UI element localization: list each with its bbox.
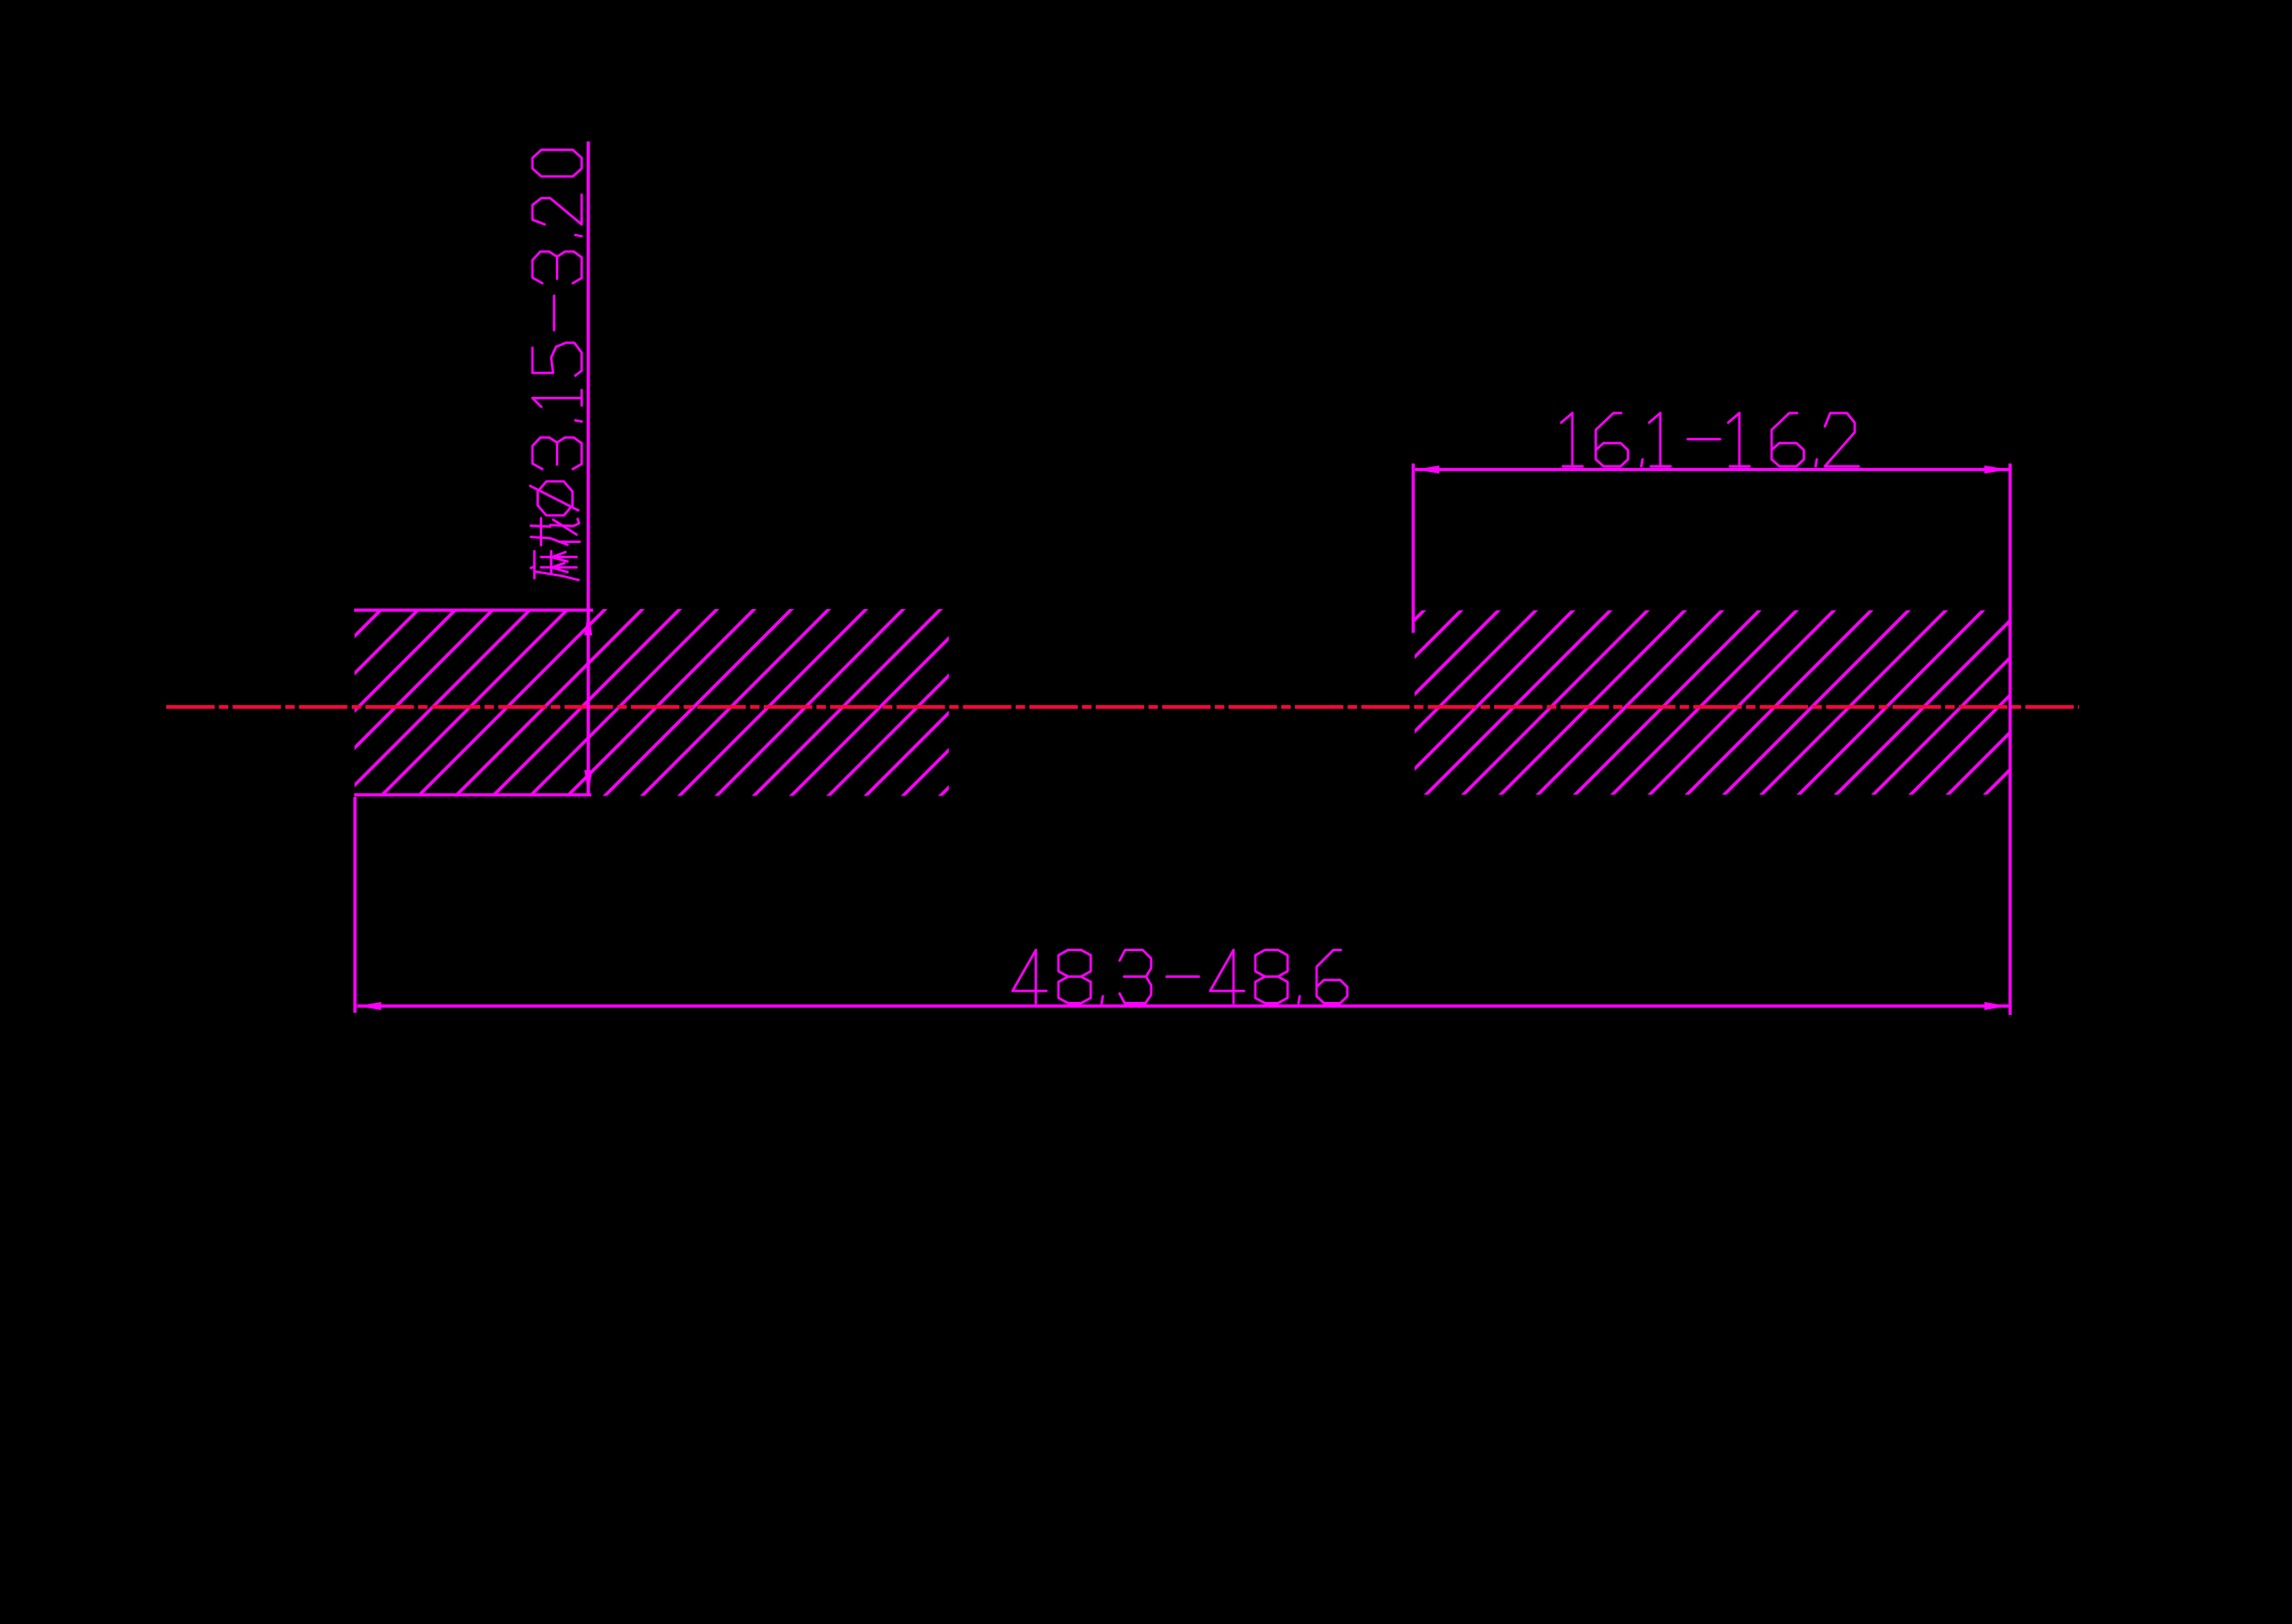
hatched section: right sleeve block	[1236, 607, 2173, 799]
arrowhead left of dim 48.3-48.6	[357, 1002, 382, 1010]
arrowhead left of dim 16.1-16.2	[1415, 465, 1439, 474]
vertical dimension line for hole dia 3.15-3.20	[587, 141, 590, 795]
extension line left (x=440) for 48.3-48.6	[353, 797, 357, 1012]
centerline (red dash-dot axis)	[166, 705, 2079, 709]
hatched section: left sleeve block	[192, 607, 1129, 799]
left block top border	[354, 608, 593, 612]
arrowhead up at top border	[584, 612, 592, 636]
extension line right shared (x=2491.6)	[2009, 464, 2012, 1016]
dimension text 16.1-16.2	[1561, 413, 1572, 423]
left block bottom border	[354, 793, 591, 796]
arrowhead down at bottom border	[584, 770, 592, 795]
extension line left (x=1751.7) for 16.1-16.2	[1412, 464, 1415, 633]
arrowhead right of dim 48.3-48.6	[1985, 1002, 2009, 1010]
rotated dimension text: 麻花(drill) dia 3.15-3.20	[530, 150, 582, 580]
arrowhead right of dim 16.1-16.2	[1985, 465, 2009, 474]
dimension line 16.1-16.2	[1415, 468, 2009, 471]
dimension text 48.3-48.6	[1035, 950, 1037, 1004]
dimension line 48.3-48.6	[357, 1004, 2009, 1008]
